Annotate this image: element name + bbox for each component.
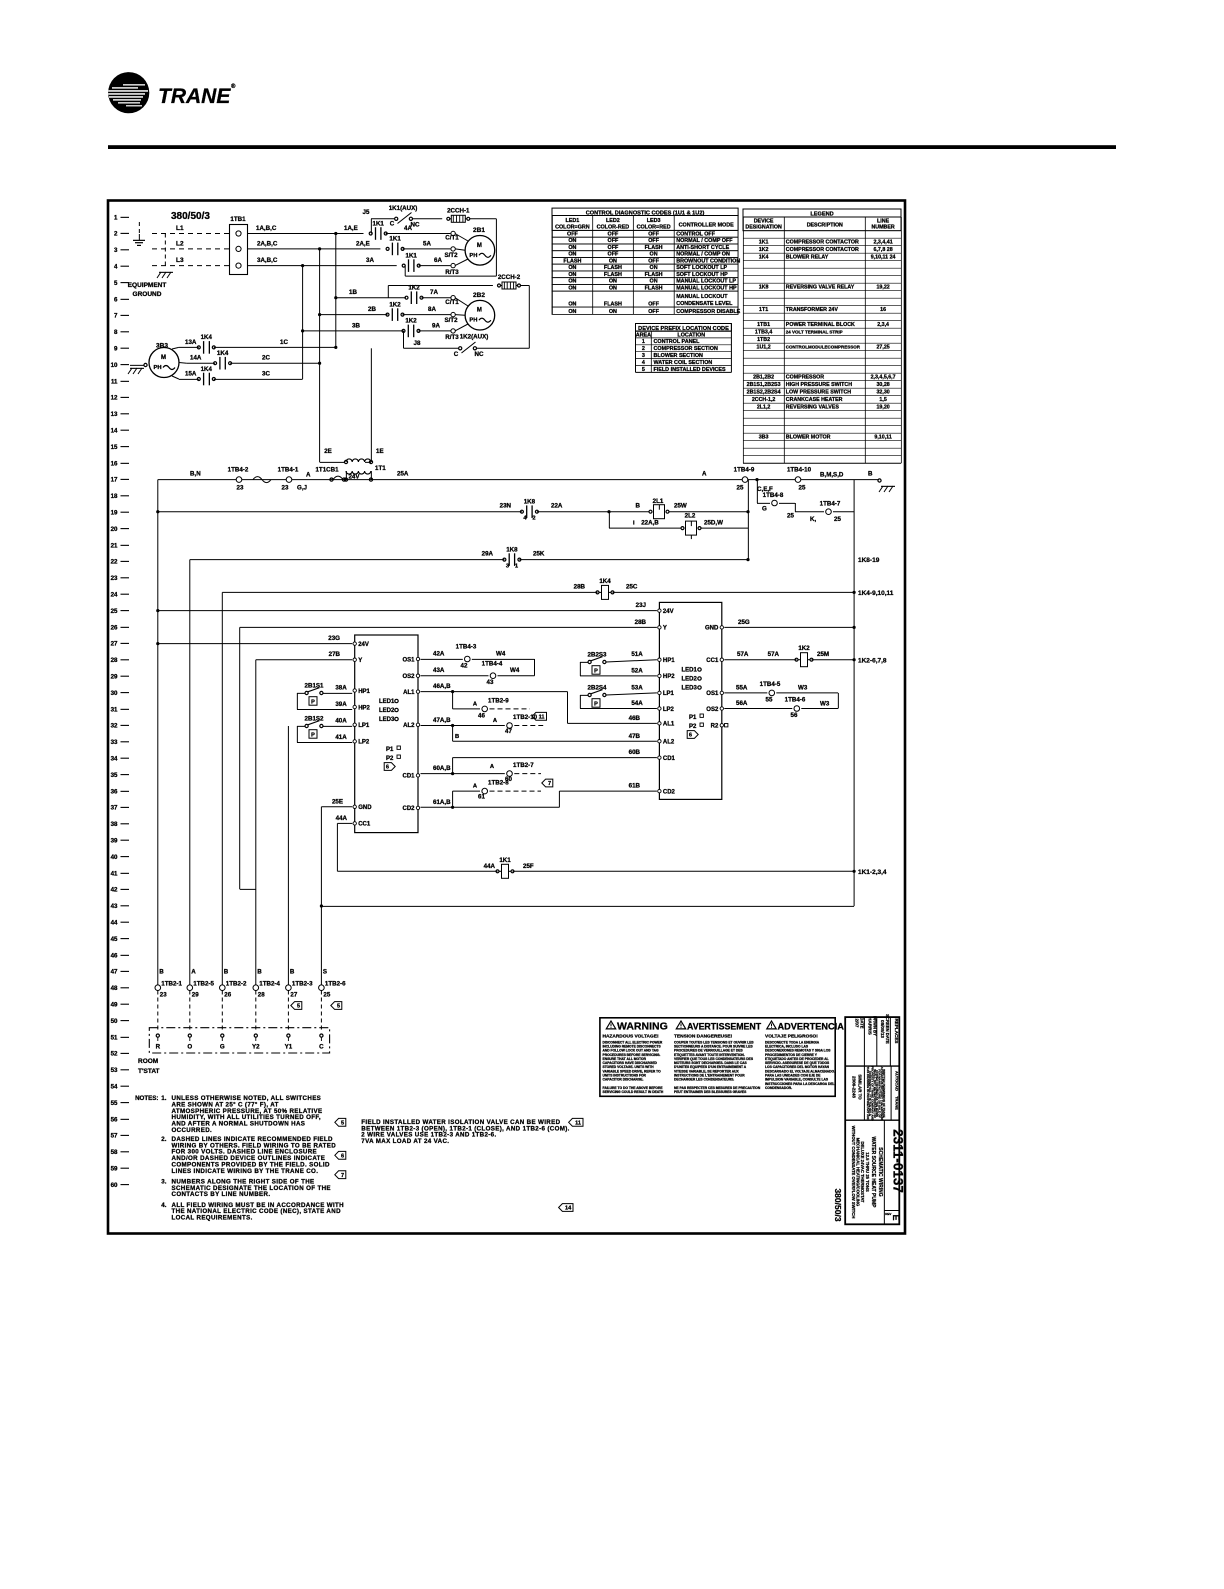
svg-text:B: B bbox=[224, 969, 229, 976]
svg-text:1T1: 1T1 bbox=[375, 465, 386, 472]
svg-text:FLASH: FLASH bbox=[604, 272, 622, 278]
svg-text:1K8-19: 1K8-19 bbox=[858, 557, 880, 564]
svg-text:24V: 24V bbox=[663, 609, 674, 615]
svg-text:42: 42 bbox=[461, 663, 468, 670]
svg-text:G: G bbox=[762, 506, 767, 513]
svg-text:PH: PH bbox=[469, 318, 477, 324]
svg-text:REPLACES: REPLACES bbox=[894, 1018, 899, 1043]
svg-text:1K2: 1K2 bbox=[389, 301, 401, 308]
svg-text:POWER TERMINAL BLOCK: POWER TERMINAL BLOCK bbox=[786, 322, 855, 328]
svg-text:LED1: LED1 bbox=[379, 699, 395, 705]
svg-text:GND: GND bbox=[705, 626, 719, 632]
svg-text:20: 20 bbox=[111, 526, 118, 533]
svg-text:2L1: 2L1 bbox=[653, 498, 664, 505]
svg-text:19: 19 bbox=[111, 510, 118, 517]
svg-text:B: B bbox=[159, 969, 164, 976]
svg-text:AL2: AL2 bbox=[663, 740, 675, 746]
svg-text:16: 16 bbox=[880, 307, 886, 313]
svg-text:35: 35 bbox=[111, 772, 118, 779]
svg-text:ON: ON bbox=[568, 309, 576, 315]
svg-text:25D,W: 25D,W bbox=[704, 520, 723, 527]
svg-text:Y: Y bbox=[663, 626, 667, 632]
svg-text:47: 47 bbox=[505, 728, 512, 735]
svg-text:COMPRESSOR CONTACTOR: COMPRESSOR CONTACTOR bbox=[786, 240, 859, 246]
svg-text:13: 13 bbox=[111, 411, 118, 418]
svg-text:42A: 42A bbox=[433, 650, 445, 657]
svg-text:29: 29 bbox=[192, 992, 199, 999]
svg-text:P2: P2 bbox=[689, 724, 697, 730]
svg-text:COLOR=GRN: COLOR=GRN bbox=[555, 224, 590, 230]
svg-text:L2: L2 bbox=[176, 240, 184, 247]
svg-text:1K2(AUX): 1K2(AUX) bbox=[460, 334, 489, 341]
svg-text:5: 5 bbox=[114, 280, 118, 287]
svg-text:WITHOUT CONDENSATE OVERFLOW SW: WITHOUT CONDENSATE OVERFLOW SWITCH bbox=[851, 1126, 856, 1219]
svg-text:5: 5 bbox=[337, 1004, 340, 1010]
svg-text:ON: ON bbox=[568, 265, 576, 271]
svg-text:OFF: OFF bbox=[648, 309, 659, 315]
svg-text:6: 6 bbox=[341, 1154, 344, 1160]
svg-text:1K1: 1K1 bbox=[406, 252, 418, 259]
svg-text:22A,B: 22A,B bbox=[641, 520, 659, 527]
svg-text:12: 12 bbox=[111, 395, 118, 402]
svg-text:8: 8 bbox=[114, 329, 118, 336]
svg-text:46: 46 bbox=[478, 713, 485, 720]
svg-text:OCCURRED.: OCCURRED. bbox=[172, 1127, 213, 1134]
svg-text:A: A bbox=[191, 969, 196, 976]
svg-text:1TB4-6: 1TB4-6 bbox=[785, 697, 806, 704]
svg-text:56: 56 bbox=[791, 712, 798, 719]
svg-text:380/50/3: 380/50/3 bbox=[171, 211, 210, 222]
svg-text:NC: NC bbox=[411, 222, 420, 229]
svg-text:LINES INDICATE WIRING BY THE T: LINES INDICATE WIRING BY THE TRANE CO. bbox=[172, 1168, 319, 1175]
svg-text:17: 17 bbox=[111, 477, 118, 484]
svg-text:3B: 3B bbox=[352, 322, 360, 329]
svg-text:COMPRESSOR DISABLE: COMPRESSOR DISABLE bbox=[676, 309, 740, 315]
svg-text:36: 36 bbox=[111, 788, 118, 795]
svg-text:1: 1 bbox=[642, 339, 645, 345]
svg-text:REVERSING VALVE RELAY: REVERSING VALVE RELAY bbox=[786, 285, 855, 291]
svg-text:OFF: OFF bbox=[567, 232, 578, 238]
svg-text:ON: ON bbox=[650, 252, 658, 258]
svg-text:44A: 44A bbox=[336, 815, 348, 822]
svg-text:7: 7 bbox=[548, 781, 551, 787]
svg-text:C: C bbox=[390, 221, 395, 228]
svg-text:C: C bbox=[454, 351, 459, 358]
svg-text:25K: 25K bbox=[533, 551, 545, 558]
svg-text:P2: P2 bbox=[386, 756, 394, 762]
svg-text:43: 43 bbox=[487, 679, 494, 686]
svg-text:S: S bbox=[323, 969, 327, 976]
svg-text:2306-2248: 2306-2248 bbox=[852, 1076, 857, 1098]
svg-text:P: P bbox=[594, 702, 598, 708]
svg-text:HIGH PRESSURE SWITCH: HIGH PRESSURE SWITCH bbox=[786, 382, 852, 388]
svg-text:25: 25 bbox=[799, 485, 806, 492]
svg-text:P: P bbox=[594, 669, 598, 675]
svg-text:1TB4-3: 1TB4-3 bbox=[456, 644, 477, 651]
svg-text:25M: 25M bbox=[817, 651, 829, 658]
svg-text:51: 51 bbox=[111, 1034, 118, 1041]
svg-text:2: 2 bbox=[114, 231, 118, 238]
svg-text:1TB4-9: 1TB4-9 bbox=[734, 467, 755, 474]
svg-text:47: 47 bbox=[111, 969, 118, 976]
svg-text:S/T2: S/T2 bbox=[444, 317, 458, 324]
svg-text:25: 25 bbox=[323, 992, 330, 999]
svg-text:61B: 61B bbox=[629, 783, 641, 790]
svg-text:1K1: 1K1 bbox=[389, 236, 401, 243]
svg-text:OFF: OFF bbox=[608, 238, 619, 244]
svg-text:SOFT LOCKOUT HP: SOFT LOCKOUT HP bbox=[676, 272, 728, 278]
svg-text:42: 42 bbox=[111, 887, 118, 894]
svg-text:57A: 57A bbox=[768, 651, 780, 658]
svg-text:FLASH: FLASH bbox=[604, 265, 622, 271]
svg-text:CD1: CD1 bbox=[402, 774, 415, 780]
svg-text:1C: 1C bbox=[280, 339, 288, 346]
svg-text:ON: ON bbox=[568, 245, 576, 251]
svg-text:LED3: LED3 bbox=[647, 218, 661, 224]
svg-text:FLASH: FLASH bbox=[645, 272, 663, 278]
svg-text:23: 23 bbox=[160, 992, 167, 999]
svg-text:1K4: 1K4 bbox=[599, 578, 611, 585]
svg-text:11: 11 bbox=[575, 1121, 581, 1127]
svg-text:OS1: OS1 bbox=[402, 657, 415, 663]
svg-text:2/07: 2/07 bbox=[855, 1019, 860, 1028]
svg-text:1TB3,4: 1TB3,4 bbox=[755, 330, 772, 336]
svg-text:R/T3: R/T3 bbox=[445, 334, 459, 341]
svg-text:CONTROLLER MODE: CONTROLLER MODE bbox=[679, 222, 735, 228]
svg-text:1T1: 1T1 bbox=[759, 307, 768, 313]
svg-text:47A,B: 47A,B bbox=[433, 717, 451, 724]
svg-text:19,20: 19,20 bbox=[876, 405, 889, 411]
svg-text:1TB2-2: 1TB2-2 bbox=[226, 981, 247, 988]
svg-text:HP1: HP1 bbox=[358, 689, 370, 695]
svg-text:3B3: 3B3 bbox=[759, 435, 769, 441]
svg-text:1TB4-2: 1TB4-2 bbox=[228, 467, 249, 474]
svg-text:24V: 24V bbox=[358, 642, 369, 648]
svg-text:ON: ON bbox=[568, 272, 576, 278]
svg-text:OS1: OS1 bbox=[706, 691, 719, 697]
svg-text:CONTROLMODULECOMPRESSOR: CONTROLMODULECOMPRESSOR bbox=[786, 345, 861, 350]
svg-text:OFF: OFF bbox=[608, 232, 619, 238]
svg-text:2CCH-2: 2CCH-2 bbox=[498, 274, 521, 281]
svg-text:SCHEMATIC WIRING: SCHEMATIC WIRING bbox=[877, 1147, 883, 1196]
svg-text:C/T1: C/T1 bbox=[445, 299, 459, 306]
svg-text:59: 59 bbox=[111, 1166, 118, 1173]
svg-text:MANUAL LOCKOUT HP: MANUAL LOCKOUT HP bbox=[676, 285, 737, 291]
svg-text:2CCH-1: 2CCH-1 bbox=[447, 207, 470, 214]
svg-text:CAPACITOR DISCHARGE.: CAPACITOR DISCHARGE. bbox=[603, 1078, 644, 1082]
svg-text:58: 58 bbox=[111, 1149, 118, 1156]
svg-text:O: O bbox=[187, 1044, 192, 1051]
svg-text:HP1: HP1 bbox=[663, 658, 675, 664]
svg-text:NUMBER: NUMBER bbox=[871, 225, 894, 231]
svg-text:HARRIS: HARRIS bbox=[868, 1017, 873, 1035]
svg-text:BLOWER SECTION: BLOWER SECTION bbox=[654, 353, 704, 359]
svg-text:1TB2-6: 1TB2-6 bbox=[325, 981, 346, 988]
svg-text:1K4-9,10,11: 1K4-9,10,11 bbox=[858, 590, 894, 597]
svg-text:56A: 56A bbox=[736, 700, 748, 707]
svg-text:B,N: B,N bbox=[190, 471, 201, 478]
svg-text:ON: ON bbox=[568, 252, 576, 258]
svg-text:SCREEN DATE: SCREEN DATE bbox=[885, 1014, 890, 1044]
svg-text:1TB2-5: 1TB2-5 bbox=[193, 981, 214, 988]
svg-text:COMPRESSOR: COMPRESSOR bbox=[786, 375, 824, 381]
svg-text:PH: PH bbox=[153, 365, 161, 371]
svg-text:NORMAL / COMP OFF: NORMAL / COMP OFF bbox=[676, 238, 733, 244]
svg-text:48: 48 bbox=[111, 985, 118, 992]
svg-text:46A,B: 46A,B bbox=[433, 683, 451, 690]
svg-text:TRANSFORMER 24V: TRANSFORMER 24V bbox=[786, 307, 839, 313]
svg-text:2311-0137: 2311-0137 bbox=[890, 1129, 905, 1193]
svg-text:Y2: Y2 bbox=[252, 1044, 260, 1051]
svg-text:ON: ON bbox=[609, 279, 617, 285]
svg-text:ON: ON bbox=[568, 301, 576, 307]
svg-text:LOW PRESSURE SWITCH: LOW PRESSURE SWITCH bbox=[786, 390, 852, 396]
svg-text:40A: 40A bbox=[335, 718, 347, 725]
svg-text:CD1: CD1 bbox=[663, 756, 676, 762]
svg-text:25F: 25F bbox=[523, 863, 534, 870]
svg-text:6: 6 bbox=[386, 765, 389, 771]
svg-text:56: 56 bbox=[111, 1116, 118, 1123]
svg-text:1K8: 1K8 bbox=[524, 499, 536, 506]
svg-text:16: 16 bbox=[111, 460, 118, 467]
svg-text:NORMAL / COMP ON: NORMAL / COMP ON bbox=[676, 252, 730, 258]
svg-text:1TB2-7: 1TB2-7 bbox=[513, 762, 534, 769]
svg-text:2B1,2B2: 2B1,2B2 bbox=[753, 375, 774, 381]
svg-text:COLOR=RED: COLOR=RED bbox=[637, 224, 671, 230]
svg-text:25: 25 bbox=[737, 485, 744, 492]
svg-text:3A,B,C: 3A,B,C bbox=[257, 257, 278, 264]
svg-text:B,M,S,D: B,M,S,D bbox=[820, 472, 844, 479]
svg-text:CD2: CD2 bbox=[663, 789, 676, 795]
svg-text:57: 57 bbox=[111, 1133, 118, 1140]
svg-text:23G: 23G bbox=[328, 635, 340, 642]
svg-text:PEUT ENTRAINER DES BLESSURES G: PEUT ENTRAINER DES BLESSURES GRAVES bbox=[674, 1090, 747, 1094]
svg-text:3B3: 3B3 bbox=[156, 343, 168, 350]
svg-text:B: B bbox=[868, 471, 873, 478]
svg-text:11: 11 bbox=[539, 715, 545, 721]
svg-text:B: B bbox=[290, 969, 295, 976]
svg-text:53A: 53A bbox=[631, 684, 643, 691]
svg-text:FLASH: FLASH bbox=[563, 258, 581, 264]
svg-text:46: 46 bbox=[111, 952, 118, 959]
svg-text:REVERSING VALVES: REVERSING VALVES bbox=[786, 405, 840, 411]
svg-text:ROOM: ROOM bbox=[138, 1058, 158, 1065]
svg-text:23J: 23J bbox=[636, 602, 647, 609]
svg-text:LED3: LED3 bbox=[379, 717, 395, 723]
svg-text:C: C bbox=[319, 1044, 324, 1051]
svg-text:OS2: OS2 bbox=[706, 707, 719, 713]
svg-text:1: 1 bbox=[114, 214, 118, 221]
svg-text:29A: 29A bbox=[482, 551, 494, 558]
svg-text:15A: 15A bbox=[185, 371, 197, 378]
svg-text:2CCH-1,2: 2CCH-1,2 bbox=[752, 397, 776, 403]
svg-text:B: B bbox=[257, 969, 262, 976]
svg-text:11: 11 bbox=[111, 378, 118, 385]
svg-text:R: R bbox=[156, 1044, 161, 1051]
svg-text:ON: ON bbox=[650, 279, 658, 285]
svg-text:AL2: AL2 bbox=[403, 723, 415, 729]
svg-text:AREA: AREA bbox=[636, 332, 651, 338]
svg-text:2,3,4,41: 2,3,4,41 bbox=[874, 240, 893, 246]
svg-text:28B: 28B bbox=[574, 584, 586, 591]
svg-text:61: 61 bbox=[478, 794, 485, 801]
svg-text:A: A bbox=[306, 472, 311, 479]
svg-text:LP2: LP2 bbox=[358, 740, 370, 746]
svg-text:2B1S2: 2B1S2 bbox=[305, 716, 324, 723]
svg-text:1K1: 1K1 bbox=[759, 240, 769, 246]
svg-text:W4: W4 bbox=[496, 650, 506, 657]
svg-text:MANUAL LOCKOUT LP: MANUAL LOCKOUT LP bbox=[676, 279, 736, 285]
svg-text:1K8: 1K8 bbox=[506, 546, 518, 553]
svg-text:COMPRESSOR SECTION: COMPRESSOR SECTION bbox=[654, 346, 719, 352]
svg-text:ON: ON bbox=[568, 285, 576, 291]
svg-text:1K4: 1K4 bbox=[201, 334, 213, 341]
svg-text:7: 7 bbox=[114, 313, 118, 320]
svg-text:3C: 3C bbox=[262, 371, 270, 378]
svg-text:E: E bbox=[891, 1214, 901, 1220]
svg-text:GROUND: GROUND bbox=[133, 291, 162, 298]
svg-text:25: 25 bbox=[787, 513, 794, 520]
svg-text:7A: 7A bbox=[430, 289, 438, 296]
svg-text:15: 15 bbox=[111, 444, 118, 451]
svg-text:21: 21 bbox=[111, 542, 118, 549]
svg-text:2C: 2C bbox=[262, 355, 270, 362]
svg-text:1TB4-4: 1TB4-4 bbox=[482, 660, 503, 667]
svg-text:2,3,4,5,6,7: 2,3,4,5,6,7 bbox=[871, 375, 896, 381]
svg-text:6A: 6A bbox=[434, 257, 442, 264]
svg-text:13A: 13A bbox=[185, 339, 197, 346]
svg-text:3: 3 bbox=[114, 247, 118, 254]
svg-text:6,7,8 28: 6,7,8 28 bbox=[874, 247, 893, 253]
svg-text:M: M bbox=[161, 355, 166, 361]
svg-text:43: 43 bbox=[111, 903, 118, 910]
svg-text:43A: 43A bbox=[433, 667, 445, 674]
svg-text:38: 38 bbox=[111, 821, 118, 828]
svg-text:08/08/13: 08/08/13 bbox=[880, 1020, 885, 1038]
svg-text:1TB1: 1TB1 bbox=[757, 322, 770, 328]
svg-text:FLASH: FLASH bbox=[645, 285, 663, 291]
svg-text:1TB2-1: 1TB2-1 bbox=[161, 981, 182, 988]
svg-text:1U1,2: 1U1,2 bbox=[757, 345, 771, 351]
svg-text:1K1-2,3,4: 1K1-2,3,4 bbox=[858, 869, 887, 876]
svg-text:54A: 54A bbox=[631, 700, 643, 707]
svg-text:R/T3: R/T3 bbox=[445, 269, 459, 276]
svg-text:25A: 25A bbox=[397, 471, 409, 478]
svg-text:1TB4-10: 1TB4-10 bbox=[787, 467, 812, 474]
svg-text:3A: 3A bbox=[366, 257, 374, 264]
svg-text:2: 2 bbox=[532, 516, 535, 522]
svg-text:39A: 39A bbox=[335, 701, 347, 708]
svg-text:TENSION DANGEREUSE!: TENSION DANGEREUSE! bbox=[674, 1034, 733, 1040]
svg-text:CONTROL OFF: CONTROL OFF bbox=[676, 232, 716, 238]
svg-text:1TB2-3: 1TB2-3 bbox=[292, 981, 313, 988]
svg-text:M: M bbox=[477, 243, 482, 249]
svg-text:LED2: LED2 bbox=[682, 677, 698, 683]
svg-text:ON: ON bbox=[568, 279, 576, 285]
svg-text:P: P bbox=[311, 700, 315, 706]
svg-text:8A: 8A bbox=[428, 306, 436, 313]
svg-text:3: 3 bbox=[642, 353, 645, 359]
svg-text:27: 27 bbox=[290, 992, 297, 999]
svg-text:2B2S4: 2B2S4 bbox=[588, 685, 607, 692]
svg-text:25: 25 bbox=[834, 516, 841, 523]
svg-text:GND: GND bbox=[358, 805, 372, 811]
svg-text:J8: J8 bbox=[414, 340, 421, 347]
svg-text:1.: 1. bbox=[161, 1095, 166, 1102]
svg-text:1E: 1E bbox=[376, 448, 384, 455]
svg-text:23: 23 bbox=[237, 485, 244, 492]
svg-text:25W: 25W bbox=[674, 503, 687, 510]
svg-text:M: M bbox=[477, 308, 482, 314]
svg-text:9: 9 bbox=[114, 346, 118, 353]
svg-text:47B: 47B bbox=[629, 733, 641, 740]
svg-text:1TB4-5: 1TB4-5 bbox=[760, 681, 781, 688]
svg-text:CD2: CD2 bbox=[402, 806, 415, 812]
svg-text:10: 10 bbox=[111, 362, 118, 369]
svg-text:2,3,4: 2,3,4 bbox=[877, 322, 889, 328]
svg-text:A: A bbox=[702, 471, 707, 478]
svg-text:MANUAL LOCKOUT: MANUAL LOCKOUT bbox=[676, 294, 728, 300]
svg-text:CONTROL PANEL: CONTROL PANEL bbox=[654, 339, 701, 345]
svg-text:2B2S3: 2B2S3 bbox=[588, 652, 607, 659]
svg-text:53: 53 bbox=[111, 1067, 118, 1074]
svg-text:28B: 28B bbox=[635, 619, 647, 626]
svg-text:DESCRIPTION: DESCRIPTION bbox=[807, 223, 843, 229]
svg-text:61A,B: 61A,B bbox=[433, 799, 451, 806]
svg-text:CONTACTS BY LINE NUMBER.: CONTACTS BY LINE NUMBER. bbox=[172, 1191, 271, 1198]
svg-text:ON: ON bbox=[609, 309, 617, 315]
svg-text:37: 37 bbox=[111, 805, 118, 812]
svg-text:1B: 1B bbox=[349, 289, 357, 296]
svg-text:LED1: LED1 bbox=[566, 218, 580, 224]
svg-text:T'STAT: T'STAT bbox=[138, 1068, 160, 1075]
svg-text:60B: 60B bbox=[629, 749, 641, 756]
svg-text:5: 5 bbox=[297, 1004, 300, 1010]
svg-text:W3: W3 bbox=[798, 684, 808, 691]
svg-text:14: 14 bbox=[111, 428, 118, 435]
svg-text:55: 55 bbox=[111, 1100, 118, 1107]
svg-text:60: 60 bbox=[111, 1182, 118, 1189]
svg-text:OFF: OFF bbox=[648, 232, 659, 238]
svg-text:R2: R2 bbox=[711, 724, 719, 730]
svg-text:31: 31 bbox=[111, 706, 118, 713]
svg-text:DECHARGER LES CONDENSATEURS.: DECHARGER LES CONDENSATEURS. bbox=[674, 1078, 734, 1082]
svg-text:34: 34 bbox=[111, 756, 118, 763]
svg-text:K,: K, bbox=[810, 516, 816, 523]
svg-text:HAZARDOUS VOLTAGE!: HAZARDOUS VOLTAGE! bbox=[603, 1034, 659, 1040]
svg-text:G: G bbox=[220, 1044, 225, 1051]
svg-text:DESIGNATION: DESIGNATION bbox=[745, 225, 782, 231]
svg-text:1K1: 1K1 bbox=[373, 220, 385, 227]
svg-text:LOCATION: LOCATION bbox=[677, 332, 705, 338]
svg-text:7VA MAX LOAD AT 24 VAC.: 7VA MAX LOAD AT 24 VAC. bbox=[361, 1138, 449, 1145]
svg-text:HP2: HP2 bbox=[663, 674, 675, 680]
svg-text:46B: 46B bbox=[629, 715, 641, 722]
svg-text:OFF: OFF bbox=[608, 252, 619, 258]
svg-text:1TB2-8: 1TB2-8 bbox=[488, 780, 509, 787]
svg-text:25: 25 bbox=[111, 608, 118, 615]
svg-text:1A,B,C: 1A,B,C bbox=[256, 225, 277, 232]
svg-text:9A: 9A bbox=[432, 322, 440, 329]
svg-text:4: 4 bbox=[114, 264, 118, 271]
svg-text:TRANE: TRANE bbox=[894, 1096, 899, 1110]
svg-text:41A: 41A bbox=[335, 734, 347, 741]
svg-text:33: 33 bbox=[111, 739, 118, 746]
svg-text:23: 23 bbox=[282, 485, 289, 492]
svg-text:LP1: LP1 bbox=[663, 691, 675, 697]
svg-text:23: 23 bbox=[111, 575, 118, 582]
svg-text:49: 49 bbox=[111, 1002, 118, 1009]
